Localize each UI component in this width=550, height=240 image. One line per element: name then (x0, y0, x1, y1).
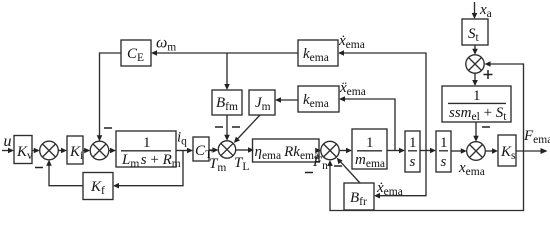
svg-text:Ks: Ks (500, 144, 516, 162)
svg-text:TL: TL (234, 155, 249, 173)
wire iq: motor block to CT with tap (176, 148, 193, 154)
wire xema sum to Ks (485, 148, 498, 154)
svg-text:Kf: Kf (90, 179, 105, 197)
svg-text:1: 1 (440, 135, 448, 151)
wire top sum to ssm block (472, 73, 478, 86)
wire kema2 to Jm (275, 97, 298, 103)
wire torque sum to eta block (236, 147, 254, 153)
summing junction top (466, 55, 484, 73)
summing junction Fn (321, 141, 339, 159)
integrator 1/s first (405, 131, 420, 172)
wire Bfm to torque sum (224, 115, 230, 141)
label minus ssm into xema sum (482, 126, 490, 128)
svg-text:Tm: Tm (209, 156, 226, 174)
label minus Fema into Fn (305, 172, 313, 174)
svg-text:s: s (410, 154, 416, 170)
summing junction xema (467, 142, 486, 161)
svg-text:ẍema: ẍema (339, 80, 366, 98)
wire xa input (472, 2, 478, 19)
svg-text:Kv: Kv (16, 144, 33, 162)
transfer function 1/(Lms+Rm) (116, 131, 176, 167)
wire ssm block to xema sum (473, 122, 479, 142)
svg-text:Jm: Jm (255, 95, 271, 113)
summing junction sum1 (40, 141, 59, 160)
wire sum2 to motor block (109, 148, 116, 154)
label minus Bfm input (215, 126, 223, 128)
svg-text:ηemaRkema: ηemaRkema (255, 144, 320, 162)
label minus sum1 (35, 167, 43, 169)
svg-text:xema: xema (458, 160, 485, 178)
wire Fema feedback up to top sum (485, 61, 524, 151)
block St (462, 19, 488, 45)
svg-text:ẋema: ẋema (376, 180, 403, 198)
svg-text:s: s (441, 154, 447, 170)
summing junction sum2 (90, 141, 109, 160)
wire Fn sum to mass block (339, 148, 352, 154)
label minus Bfr into Fn (334, 165, 342, 167)
label minus Jm input (232, 126, 240, 128)
svg-text:ωm: ωm (156, 35, 176, 54)
gain Ks (498, 135, 516, 166)
wire Fema feedback down and around to Fn sum (327, 151, 523, 211)
wire Jm diagonal to torque sum (234, 115, 260, 143)
svg-text:ẋema: ẋema (338, 33, 365, 51)
transfer function 1/m_ema (352, 129, 387, 169)
svg-text:1: 1 (366, 135, 374, 151)
wire CT to torque sum (209, 147, 218, 153)
wire Kv to sum1 (32, 148, 40, 154)
svg-text:ssmel + St: ssmel + St (449, 105, 507, 123)
svg-text:kema: kema (303, 46, 329, 64)
block eta R kema (253, 139, 320, 162)
wire tap xdot down to Bfr (374, 151, 426, 199)
svg-text:1: 1 (409, 135, 417, 151)
svg-text:St: St (468, 26, 480, 44)
wire omega: kema1 to CE with tap to Bfm (151, 50, 298, 56)
wire eta block to Fn sum (315, 148, 321, 154)
wire Ki to sum2 (83, 148, 90, 154)
svg-text:Lms + Rm: Lms + Rm (121, 152, 181, 170)
wire tap iq down to Kf (113, 151, 183, 189)
wire tap xdot up to kema1 (338, 50, 426, 150)
block kema2 (298, 86, 339, 112)
block Jm (249, 90, 275, 115)
svg-text:Bfm: Bfm (216, 95, 238, 113)
wire tap xddot up to kema2 (339, 96, 395, 150)
svg-text:xa: xa (479, 2, 492, 20)
transfer function 1/(ssm_el+St) (442, 86, 511, 122)
svg-text:kema: kema (303, 92, 329, 110)
wire tap omega down to Bfm (224, 53, 230, 90)
wire sum1 to Ki (58, 148, 67, 154)
svg-text:CE: CE (127, 46, 144, 64)
wire Bfr diagonal to Fn sum (337, 158, 360, 183)
svg-text:1: 1 (473, 88, 481, 104)
gain Kf (83, 173, 113, 200)
svg-text:Fema: Fema (523, 128, 550, 146)
svg-text:Bfr: Bfr (350, 190, 367, 208)
svg-text:iq: iq (177, 130, 187, 148)
block Bfr (344, 183, 374, 210)
wire integrator1 to integrator2 (420, 148, 436, 154)
wire u input (2, 148, 14, 154)
gain Kv (14, 136, 32, 164)
block kema1 (298, 40, 338, 66)
wire St to top sum (472, 45, 478, 55)
wire integrator2 to xema sum (451, 148, 467, 154)
svg-text:mema: mema (355, 152, 385, 170)
integrator 1/s second (436, 131, 451, 172)
wire Ks output Fema (516, 148, 548, 154)
svg-text:1: 1 (143, 135, 151, 151)
summing junction torque (218, 141, 235, 158)
label plus top sum (484, 70, 493, 79)
wire mass block to integrator1 with xddot tap (387, 148, 405, 154)
gain CT (193, 137, 209, 161)
wire Kf to sum1 (46, 160, 83, 186)
gain Ki (67, 136, 83, 164)
label minus sum2 (104, 127, 112, 129)
block Bfm (212, 90, 242, 115)
block CE (121, 40, 151, 66)
svg-text:Fn: Fn (312, 154, 328, 172)
wire CE down to sum2 (97, 53, 121, 141)
svg-text:Ki: Ki (69, 144, 83, 162)
svg-text:u: u (4, 133, 12, 150)
